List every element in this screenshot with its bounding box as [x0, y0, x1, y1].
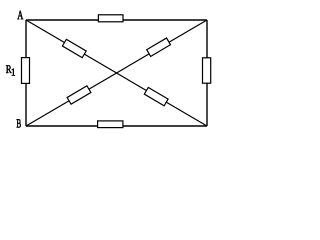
resistor right side — [203, 58, 211, 83]
wire diagonal from node A to bottom-right corner — [26, 20, 207, 126]
wire bottom side B to bottom-right corner — [26, 125, 207, 127]
wire top side A to top-right corner — [26, 19, 207, 21]
resistor bottom side — [98, 121, 123, 128]
node A label — [17, 11, 23, 19]
resistor on diagonal B-TR lower segment — [67, 86, 91, 104]
wire left side A to B — [25, 20, 27, 126]
resistor top side — [98, 15, 123, 22]
wire right side — [206, 20, 208, 126]
label R1 value — [6, 65, 15, 75]
resistor on diagonal B-TR upper segment — [147, 38, 171, 56]
resistor on diagonal A-BR lower segment — [144, 87, 168, 105]
node B label — [17, 119, 21, 127]
resistor on diagonal A-BR upper segment — [62, 39, 86, 57]
wire diagonal from node B to top-right corner — [26, 20, 207, 126]
resistor R1 (left side) — [22, 58, 30, 84]
